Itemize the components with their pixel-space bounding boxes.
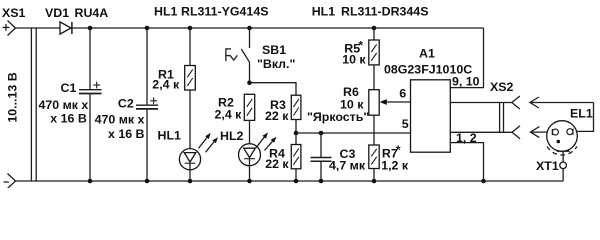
wire R1 top lead — [189, 28, 191, 66]
svg-text:х 16 В: х 16 В — [108, 127, 145, 141]
wire XS2 upper — [450, 102, 512, 104]
node junction HL2 bottom — [247, 179, 252, 184]
svg-text:470 мк х: 470 мк х — [95, 112, 145, 126]
svg-text:*: * — [358, 39, 363, 53]
XS2 lower socket contact — [512, 126, 520, 139]
svg-text:C1: C1 — [61, 81, 77, 95]
resistor R2 — [244, 94, 254, 120]
capacitor C1 — [79, 90, 102, 94]
wire C3 bottom lead — [320, 162, 322, 181]
wire EL1 base to XT1 — [562, 151, 564, 162]
node junction C3 bottom — [319, 179, 324, 184]
wire HL1 bottom lead — [189, 163, 191, 181]
wire EL1 right lead loop — [573, 103, 593, 132]
LED HL2 — [239, 144, 261, 166]
svg-text:HL2: HL2 — [220, 129, 244, 143]
wire SB1 node to R3 — [250, 83, 297, 96]
resistor R7 — [369, 145, 379, 169]
wire R1 to HL1 — [189, 90, 191, 153]
switch SB1 upper lead — [249, 28, 251, 48]
wire R6 to R7 — [373, 115, 375, 145]
svg-text:"Яркость": "Яркость" — [307, 110, 369, 124]
C2 plus mark — [150, 97, 157, 104]
lamp EL1 envelope — [547, 121, 578, 152]
XS2 connector boundary double line — [500, 103, 504, 133]
svg-text:C2: C2 — [118, 97, 134, 111]
wire node R3R4 to pin 5 — [296, 132, 411, 134]
wire C1 top lead — [89, 28, 91, 89]
svg-text:1,2 к: 1,2 к — [381, 158, 409, 172]
LED HL1 — [179, 149, 200, 170]
wire HL2 bottom lead — [249, 159, 251, 181]
node junction VD1/C1 — [88, 26, 93, 31]
svg-text:VD1: VD1 — [45, 6, 69, 20]
wire C2 top lead — [146, 28, 148, 105]
svg-text:XT1: XT1 — [536, 159, 559, 173]
SB1 pushbutton actuator — [225, 48, 237, 61]
wire bottom bus — [16, 180, 564, 182]
HL1 emission arrows — [199, 133, 218, 152]
resistor R5 — [369, 40, 379, 65]
wire R7 bottom lead — [373, 169, 375, 182]
node junction R4 bottom — [294, 179, 299, 184]
resistor R1 — [185, 66, 196, 91]
svg-text:XS1: XS1 — [2, 6, 26, 20]
wire R5 top lead — [373, 28, 375, 40]
node junction SB1 top — [247, 26, 252, 31]
node junction R3/R4 — [294, 131, 299, 136]
node junction C2 bottom — [145, 179, 150, 184]
C1 plus mark — [93, 82, 100, 89]
node junction C3 top — [319, 131, 324, 136]
switch SB1 lower lead — [249, 62, 251, 83]
XS1 pin 1 socket contact — [8, 21, 16, 36]
svg-text:470 мк х: 470 мк х — [39, 98, 89, 112]
svg-text:5: 5 — [402, 117, 409, 131]
wire XS2 lower — [450, 131, 512, 133]
XS1 minus polarity mark — [4, 181, 9, 183]
R6 wiper arrow — [380, 99, 411, 105]
svg-text:RU4A: RU4A — [75, 6, 109, 20]
EL1 shell dashed arc — [547, 146, 577, 155]
svg-text:RL311-DR344S: RL311-DR344S — [341, 4, 428, 18]
wire C3 top lead — [320, 133, 322, 157]
HL2 emission arrows — [256, 133, 276, 151]
resistor R3 — [291, 95, 301, 119]
svg-text:4,7 мк: 4,7 мк — [329, 159, 366, 173]
node junction R1 top — [188, 26, 193, 31]
svg-text:22 к: 22 к — [265, 157, 289, 171]
svg-text:SB1: SB1 — [262, 43, 286, 57]
wire R4 leads — [295, 133, 297, 181]
wire R2 to HL2 — [249, 120, 251, 148]
node junction ground return — [481, 179, 486, 184]
svg-text:10...13 В: 10...13 В — [6, 72, 20, 122]
svg-text:EL1: EL1 — [570, 107, 593, 121]
terminal XT1 — [560, 162, 567, 169]
EL1 base bar — [557, 150, 570, 152]
XS1 plus polarity mark — [3, 24, 10, 31]
node junction R7 bottom — [372, 179, 377, 184]
diode VD1 — [60, 22, 72, 34]
svg-text:2,4 к: 2,4 к — [152, 78, 180, 92]
svg-text:*: * — [396, 143, 401, 157]
svg-text:10 к: 10 к — [342, 53, 366, 67]
wire pin 9,10 to top bus — [450, 28, 483, 88]
node junction SB1 bottom — [247, 80, 252, 85]
EL1 right contact — [567, 129, 573, 135]
node junction C2 top — [145, 26, 150, 31]
XS2 upper plug pin arrow — [530, 97, 594, 108]
wire top bus — [72, 27, 484, 29]
resistor R4 — [291, 145, 301, 169]
wire C1 bottom lead — [89, 94, 91, 181]
IC A1 box — [411, 80, 451, 152]
svg-text:XS2: XS2 — [490, 80, 514, 94]
wire A1 ground return — [450, 143, 483, 181]
wire XT1 to bottom bus — [562, 169, 564, 181]
svg-text:A1: A1 — [419, 47, 435, 61]
svg-text:HL1: HL1 — [154, 4, 178, 18]
svg-text:RL311-YG414S: RL311-YG414S — [181, 4, 268, 18]
potentiometer R6 — [369, 90, 379, 116]
svg-text:22 к: 22 к — [265, 109, 289, 123]
node junction R5 top — [372, 26, 377, 31]
svg-text:2,4 к: 2,4 к — [215, 107, 243, 121]
wire top bus left — [16, 27, 61, 29]
svg-text:HL1: HL1 — [312, 4, 336, 18]
EL1 left contact — [552, 129, 558, 135]
svg-text:х 16 В: х 16 В — [50, 112, 87, 126]
node junction C1 bottom — [88, 179, 93, 184]
EL1 gas dot — [557, 140, 561, 144]
svg-text:6: 6 — [399, 87, 406, 101]
svg-text:HL1: HL1 — [158, 128, 182, 142]
switch SB1 blade — [241, 49, 249, 62]
capacitor C3 — [311, 158, 332, 162]
XS1 pin 2 socket contact — [8, 174, 16, 189]
svg-text:9, 10: 9, 10 — [452, 74, 480, 88]
wire R5 to R6 — [373, 65, 375, 90]
node junction HL1 bottom — [188, 179, 193, 184]
capacitor C2 — [136, 105, 158, 109]
XS1 connector boundary double line — [31, 28, 36, 181]
XS2 lower plug pin arrow — [531, 127, 553, 138]
wire C2 bottom lead — [146, 109, 148, 181]
wire R3 to node — [295, 120, 297, 134]
XS2 upper socket contact — [512, 96, 520, 109]
svg-text:"Вкл.": "Вкл." — [257, 57, 295, 71]
